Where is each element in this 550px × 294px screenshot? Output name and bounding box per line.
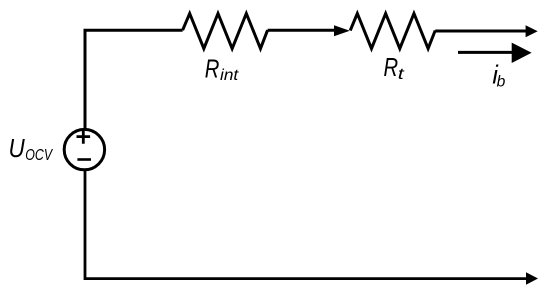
svg-text:t: t	[398, 66, 405, 83]
current arrow i_b (annotation)	[458, 51, 513, 54]
svg-text:int: int	[220, 67, 239, 84]
resistor R_int (zigzag)	[183, 14, 268, 49]
arrowhead (current direction into R_t)	[334, 25, 350, 36]
wire: R_int to mid arrowhead	[268, 29, 335, 32]
svg-text:R: R	[205, 54, 220, 84]
arrowhead (bottom right output)	[526, 272, 538, 285]
minus sign	[77, 158, 91, 161]
arrowhead (top right output)	[526, 25, 538, 37]
svg-text:U: U	[9, 133, 25, 163]
plus sign	[77, 129, 91, 143]
wire: source bottom down and across bottom rail	[85, 171, 527, 279]
wire: left vertical from source top up and across to R_int	[85, 30, 183, 129]
wire: R_t to right output terminal	[435, 30, 526, 33]
resistor R_t (zigzag)	[350, 14, 435, 49]
svg-text:b: b	[497, 73, 506, 90]
svg-text:R: R	[384, 52, 399, 82]
voltage source U_OCV (circle)	[64, 129, 104, 169]
svg-text:OCV: OCV	[25, 147, 53, 164]
